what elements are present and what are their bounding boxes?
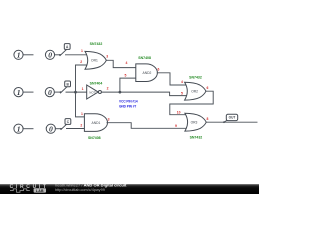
svg-text:2: 2 [107, 87, 109, 91]
wire NOT1 output to OR2 pin 5 [102, 92, 190, 96]
svg-text:6: 6 [157, 68, 159, 72]
svg-text:SN7432: SN7432 [189, 76, 202, 80]
svg-text:OR3: OR3 [191, 121, 198, 125]
wire node B down to AND1 pin 1 [76, 92, 86, 117]
svg-text:SN7408: SN7408 [138, 56, 151, 60]
svg-text:OR1: OR1 [91, 59, 98, 63]
svg-text:AND2: AND2 [143, 71, 152, 75]
svg-text:1: 1 [17, 124, 21, 133]
svg-text:AND1: AND1 [92, 121, 101, 125]
svg-text:4: 4 [126, 61, 128, 65]
wire OR2 output loop to OR3 pin 10 [170, 91, 213, 115]
svg-text:NOT1: NOT1 [89, 90, 97, 94]
svg-text:0: 0 [49, 124, 53, 133]
or-gate OR1 [85, 51, 106, 69]
svg-text:OR2: OR2 [191, 90, 198, 94]
svg-text:2: 2 [80, 124, 82, 128]
logic source V5 value 1 row C [14, 124, 23, 133]
wire switch C to AND1 pin 2 [67, 128, 86, 130]
svg-text:2: 2 [80, 60, 82, 64]
wire AND2 output to OR2 pin 4 [157, 73, 189, 85]
wire branch up to AND2 pin 5 [120, 78, 136, 92]
logo LAB box [34, 188, 46, 192]
svg-text:6: 6 [207, 86, 209, 90]
svg-text:5: 5 [181, 91, 183, 95]
wire stub from V5 [23, 128, 33, 130]
svg-text:1: 1 [81, 112, 83, 116]
logic source V4 value 0 row B [45, 88, 54, 97]
svg-text:5: 5 [124, 73, 126, 77]
switch C lever [61, 123, 68, 129]
node B junction dot [74, 91, 77, 94]
wire switch B to NOT1 pin 1 [66, 91, 87, 93]
logic source V1 value 1 row A [14, 50, 23, 59]
switch C label box [65, 119, 71, 125]
switch A lever [60, 49, 67, 55]
junction dot NOT1 output branch [119, 91, 122, 94]
and-gate AND2 [136, 64, 158, 82]
svg-text:heath.white27 / AND OR Digital: heath.white27 / AND OR Digital circuit [55, 183, 127, 188]
switch B lever [61, 87, 68, 93]
switch B label box [65, 81, 71, 87]
logic source V3 value 1 row B [14, 88, 23, 97]
svg-text:LAB: LAB [36, 189, 44, 193]
wire switch A to OR1 pin 1 [66, 54, 90, 56]
wire AND1 output to OR3 pin 9 [107, 123, 190, 129]
svg-text:SN7408: SN7408 [88, 136, 101, 140]
svg-text:0: 0 [48, 88, 52, 97]
svg-text:OUT: OUT [229, 116, 236, 120]
svg-text:8: 8 [207, 117, 209, 121]
svg-text:0: 0 [48, 51, 52, 60]
svg-text:3: 3 [106, 55, 108, 59]
svg-text:1: 1 [17, 88, 21, 97]
node OUT label box [226, 114, 237, 120]
wire stub from V3 [23, 91, 33, 93]
not-gate NOT1 [87, 85, 102, 99]
wire V6 to switch C [55, 128, 61, 130]
wire OR1 output to AND2 pin 4 [106, 60, 136, 67]
and-gate AND1 [84, 114, 107, 132]
svg-text:4: 4 [181, 80, 183, 84]
svg-text:SN7432: SN7432 [90, 42, 103, 46]
svg-text:1: 1 [81, 49, 83, 53]
logic source V6 value 0 row C [46, 124, 55, 133]
wire stub from V1 [23, 54, 33, 56]
or-gate OR2 [185, 82, 206, 100]
logo waveform [10, 189, 30, 192]
svg-text:SN7404: SN7404 [90, 81, 103, 85]
wire V2 to switch A [55, 54, 60, 56]
svg-text:VCC PIN #14: VCC PIN #14 [119, 100, 138, 104]
svg-text:1: 1 [17, 51, 21, 60]
wire V4 to switch B [54, 91, 60, 93]
svg-text:10: 10 [177, 111, 181, 115]
svg-text:1: 1 [82, 87, 84, 91]
svg-text:GND PIN #7: GND PIN #7 [119, 105, 136, 109]
logic source V2 value 0 row A [45, 50, 54, 59]
or-gate OR3 [185, 113, 206, 131]
svg-text:http://circuitlab.com/c/4pwy99: http://circuitlab.com/c/4pwy99 [55, 188, 105, 192]
wire OR3 output to right edge [206, 121, 257, 123]
svg-text:3: 3 [108, 118, 110, 122]
switch A label box [64, 44, 70, 50]
svg-text:SN7432: SN7432 [190, 135, 203, 139]
svg-text:9: 9 [175, 124, 177, 128]
wire OR1 pin 2 branch from node B [76, 65, 90, 92]
node OUT flag pointer [224, 120, 228, 122]
